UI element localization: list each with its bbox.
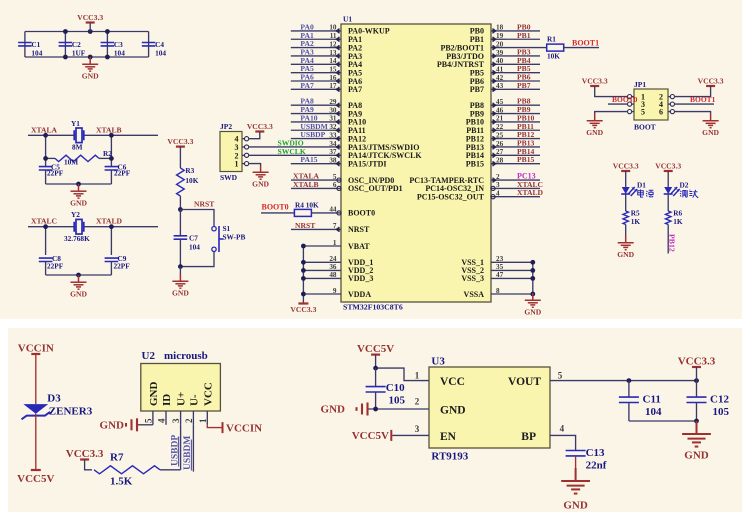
pin number 2 U2 — [192, 411, 194, 425]
svg-text:1K: 1K — [631, 217, 641, 226]
led D2 — [664, 187, 680, 196]
wire pin 13 PA3 — [291, 55, 341, 57]
svg-text:5: 5 — [558, 370, 563, 380]
wire pin 11 PA1 — [291, 38, 341, 40]
capacitor C13 — [566, 451, 586, 456]
svg-text:VCC: VCC — [440, 376, 465, 388]
wire VCC3.3 to JP1 pin2 — [674, 86, 710, 97]
wire Y1 right branch — [110, 135, 112, 164]
svg-text:3: 3 — [415, 424, 420, 434]
wire VCC3.3 to R7 — [85, 460, 92, 470]
svg-text:JP2: JP2 — [220, 122, 232, 131]
wire VOUT net — [550, 380, 697, 382]
capacitor C9 — [105, 258, 119, 261]
svg-text:VCC3.3: VCC3.3 — [290, 305, 316, 314]
svg-text:29: 29 — [329, 98, 337, 106]
wire Y2 right branch — [110, 227, 112, 255]
wire pin 6 OSC_OUT — [291, 187, 341, 189]
crystal Y1 — [74, 128, 83, 143]
wire VCC3.3 to JP1 pin1 — [595, 86, 628, 97]
svg-text:5: 5 — [143, 418, 153, 423]
ground D1 — [618, 236, 634, 250]
svg-text:BOOT0: BOOT0 — [348, 209, 375, 218]
svg-text:XTALC: XTALC — [31, 217, 57, 226]
svg-text:104: 104 — [189, 243, 200, 252]
svg-text:JP1: JP1 — [634, 80, 646, 89]
svg-text:VCCIN: VCCIN — [226, 422, 262, 434]
resistor R2 — [46, 157, 55, 159]
wire pin 28 PB15 — [491, 163, 540, 165]
wire D3 to VCC5V — [35, 414, 37, 470]
regulator U3 body — [429, 367, 550, 448]
wire D2 to R6 — [667, 194, 669, 211]
svg-text:41: 41 — [496, 65, 504, 73]
svg-text:18: 18 — [496, 24, 504, 32]
wire pin 17 PA7 — [291, 88, 341, 90]
svg-text:22PF: 22PF — [47, 169, 64, 178]
resistor R3 — [177, 168, 185, 196]
wire R5 to ground — [625, 225, 627, 236]
svg-text:VCC5V: VCC5V — [357, 343, 394, 355]
wire pin 26 PB13 — [491, 146, 540, 148]
svg-text:GND: GND — [563, 500, 588, 512]
wire VCC3.3 to R3 — [179, 147, 181, 168]
svg-text:BP: BP — [521, 431, 536, 443]
svg-text:C13: C13 — [586, 447, 605, 459]
svg-text:27: 27 — [496, 148, 504, 156]
mcu U1 left pin names — [348, 27, 422, 299]
svg-text:26: 26 — [496, 140, 504, 148]
svg-text:45: 45 — [496, 98, 504, 106]
pin number 1 U2 — [206, 411, 208, 425]
svg-text:25: 25 — [496, 131, 504, 139]
svg-text:17: 17 — [329, 82, 337, 90]
svg-text:SWD: SWD — [220, 173, 238, 182]
svg-text:19: 19 — [496, 32, 504, 40]
wire pin 25 PB12 — [491, 138, 540, 140]
wire NRST to S1 — [180, 210, 214, 227]
svg-text:104: 104 — [155, 49, 166, 58]
wire right ground rail — [532, 262, 534, 293]
junction dots decoupling bank — [63, 29, 68, 34]
svg-text:XTALB: XTALB — [96, 125, 122, 134]
svg-text:13: 13 — [329, 49, 337, 57]
svg-text:Y2: Y2 — [71, 210, 80, 219]
ground U2 — [126, 418, 137, 431]
ground Y1 — [71, 184, 87, 198]
wire pin 43 PB7 — [505, 88, 540, 90]
svg-text:VCCIN: VCCIN — [18, 343, 54, 355]
svg-text:1UF: 1UF — [72, 49, 86, 58]
capacitor C8 — [39, 258, 53, 261]
svg-text:105: 105 — [713, 406, 730, 418]
svg-text:D2: D2 — [680, 181, 689, 190]
wire pin 46 PB9 — [491, 113, 540, 115]
wire pin 42 PB6 — [505, 80, 540, 82]
svg-text:U1: U1 — [343, 15, 352, 24]
svg-text:4: 4 — [496, 190, 500, 198]
wire JP1 pin6 to ground — [674, 112, 710, 114]
svg-text:VCC5V: VCC5V — [17, 473, 54, 485]
wire VCC3.3 to D2 — [667, 171, 669, 187]
wire USBDP net — [180, 425, 182, 470]
wire R6 to PB12 — [667, 225, 669, 254]
capacitor C7 — [179, 210, 181, 236]
svg-text:PB1: PB1 — [517, 31, 531, 40]
wire pin 12 PA2 — [291, 47, 341, 49]
svg-text:PC15-OSC32_OUT: PC15-OSC32_OUT — [417, 193, 485, 202]
svg-text:1.5K: 1.5K — [110, 476, 133, 488]
svg-text:C7: C7 — [189, 234, 198, 243]
svg-text:D1: D1 — [637, 181, 646, 190]
wire U2 pin5 to ground — [138, 424, 153, 426]
svg-text:GND: GND — [70, 199, 87, 208]
svg-text:R3: R3 — [185, 166, 194, 175]
svg-text:10K: 10K — [185, 176, 198, 185]
svg-text:1: 1 — [198, 418, 208, 423]
svg-text:NRST: NRST — [295, 221, 315, 230]
svg-text:8M: 8M — [72, 142, 83, 151]
wire Y2 left branch — [45, 227, 47, 255]
connector U2 microusb — [141, 364, 221, 412]
svg-text:15: 15 — [329, 65, 337, 73]
wire VCC3.3 to D1 — [625, 171, 627, 187]
wire pin 16 PA6 — [291, 80, 341, 82]
svg-text:GND: GND — [100, 420, 125, 432]
svg-text:104: 104 — [31, 49, 42, 58]
wire pin 31 PA10 — [291, 121, 341, 123]
svg-text:C11: C11 — [643, 394, 661, 406]
svg-text:ID: ID — [161, 394, 173, 406]
wire R7 to USBDP — [160, 469, 181, 471]
resistor R7 — [94, 466, 160, 474]
svg-text:PB15: PB15 — [517, 155, 535, 164]
svg-text:33: 33 — [329, 131, 337, 139]
svg-text:BOOT1: BOOT1 — [690, 95, 716, 104]
svg-text:4: 4 — [560, 424, 565, 434]
wire VCCIN to D3 — [35, 354, 37, 404]
mcu U1 right pin names — [409, 27, 484, 299]
svg-text:VCC3.3: VCC3.3 — [698, 77, 724, 86]
wire VBAT rail — [303, 245, 341, 247]
svg-text:microusb: microusb — [164, 350, 208, 362]
wire pin 22 PB11 — [491, 129, 540, 131]
svg-text:PB15: PB15 — [466, 159, 484, 168]
svg-text:44: 44 — [329, 206, 337, 214]
svg-text:VCC3.3: VCC3.3 — [678, 356, 716, 368]
connector JP1 — [634, 89, 668, 120]
wire JP1 pin5 to ground — [595, 112, 628, 114]
svg-text:105: 105 — [389, 394, 406, 406]
svg-text:VCC3.3: VCC3.3 — [613, 162, 639, 171]
svg-text:16: 16 — [329, 74, 337, 82]
svg-text:U+: U+ — [176, 392, 188, 406]
svg-text:11: 11 — [330, 32, 337, 40]
power VCC5V bottom — [31, 469, 41, 471]
svg-text:PA7: PA7 — [348, 85, 362, 94]
svg-text:VSSA: VSSA — [464, 290, 485, 299]
wire JP2 pin4 to VCC3.3 — [248, 132, 259, 139]
ground decoupling bank — [82, 57, 98, 71]
svg-text:XTALB: XTALB — [293, 180, 319, 189]
svg-text:GND: GND — [440, 405, 466, 417]
svg-text:OSC_OUT/PD1: OSC_OUT/PD1 — [348, 184, 403, 193]
capacitor C1 — [18, 43, 32, 46]
svg-text:12: 12 — [329, 40, 337, 48]
svg-text:GND: GND — [524, 308, 541, 317]
svg-text:1: 1 — [235, 160, 239, 169]
svg-text:C12: C12 — [710, 394, 729, 406]
wire VSSA — [491, 293, 533, 295]
wire C10 ground to pin2 GND — [369, 408, 430, 410]
pin number 3 U2 — [180, 411, 182, 425]
svg-text:C10: C10 — [386, 382, 405, 394]
svg-text:14: 14 — [329, 57, 337, 65]
wire pin 32 USBDM — [291, 129, 341, 131]
resistor R4 — [261, 212, 294, 214]
svg-text:GND: GND — [702, 128, 719, 137]
resistor R5 — [623, 211, 628, 225]
svg-text:PA15/JTDI: PA15/JTDI — [348, 159, 387, 168]
capacitor C3 — [101, 43, 115, 46]
wire U2 pin1 to VCCIN — [207, 425, 221, 428]
wire R3 to node — [179, 196, 181, 210]
svg-text:5: 5 — [333, 173, 337, 181]
svg-text:XTALA: XTALA — [31, 125, 58, 134]
wire pin 4 PC15 — [491, 196, 540, 198]
led D1 — [621, 187, 637, 196]
svg-text:37: 37 — [329, 148, 337, 156]
svg-text:22PF: 22PF — [47, 262, 64, 271]
wire decoupling bank rails — [25, 31, 149, 33]
svg-text:VDDA: VDDA — [348, 290, 371, 299]
wire pin 33 USBDP — [291, 138, 341, 140]
svg-text:GND: GND — [252, 180, 269, 189]
wire BOOT1 JP1 pin4 — [674, 103, 714, 105]
wire pin 45 PB8 — [491, 104, 540, 106]
svg-text:VCC3.3: VCC3.3 — [247, 122, 273, 131]
wire VDD rail — [303, 261, 341, 263]
wire pin 2 PC13 — [491, 179, 540, 181]
svg-text:10: 10 — [329, 24, 337, 32]
capacitor C4 — [142, 43, 156, 46]
wire C11 C12 bottom — [629, 420, 697, 422]
wire pin 38 PA15 — [291, 163, 341, 165]
wire pin 30 PA9 — [291, 113, 341, 115]
wire pin 19 PB1 — [505, 38, 540, 40]
svg-text:VCC3.3: VCC3.3 — [655, 162, 681, 171]
wire XTALC-XTALD — [28, 226, 74, 228]
svg-text:GND: GND — [684, 450, 709, 462]
svg-text:STM32F103C8T6: STM32F103C8T6 — [343, 303, 403, 312]
svg-text:46: 46 — [496, 106, 504, 114]
svg-text:NRST: NRST — [348, 225, 370, 234]
svg-text:GND: GND — [82, 72, 99, 81]
wire pin 34 SWDIO — [248, 146, 341, 148]
node C7 bottom — [178, 264, 183, 269]
wire BOOT0 JP1 pin3 — [608, 103, 628, 105]
svg-text:GND: GND — [586, 128, 603, 137]
ground output caps — [682, 421, 711, 447]
svg-text:VCC3.3: VCC3.3 — [66, 448, 104, 460]
pin number 5 U2 — [152, 411, 154, 425]
svg-text:6: 6 — [659, 108, 663, 117]
svg-text:104: 104 — [645, 406, 662, 418]
svg-text:7: 7 — [333, 222, 337, 230]
svg-text:3: 3 — [171, 418, 181, 423]
wire Y2 bottom rail — [46, 274, 112, 276]
ground C13 — [561, 468, 590, 494]
svg-text:VCC3.3: VCC3.3 — [167, 137, 193, 146]
svg-text:PB7: PB7 — [470, 85, 484, 94]
svg-text:38: 38 — [329, 156, 337, 164]
capacitor C6 — [110, 164, 112, 166]
svg-text:20: 20 — [496, 40, 504, 48]
wire pin 10 PA0 — [291, 30, 341, 32]
resistor R6 — [666, 211, 671, 225]
svg-text:VCC3.3: VCC3.3 — [77, 13, 103, 22]
wire EN — [392, 434, 429, 436]
wire pin 18 PB0 — [505, 30, 540, 32]
wire pin 7 NRST — [291, 228, 341, 230]
ground mcu — [525, 293, 541, 307]
svg-text:VDD_3: VDD_3 — [348, 274, 373, 283]
svg-text:21: 21 — [496, 115, 504, 123]
wire pin 15 PA5 — [291, 72, 341, 74]
svg-text:8: 8 — [496, 287, 500, 295]
ground reset circuit — [179, 267, 181, 274]
capacitor C2 — [59, 43, 73, 46]
svg-text:28: 28 — [496, 156, 504, 164]
wire pin 39 PB3 — [505, 55, 540, 57]
wire pin 29 PA8 — [291, 104, 341, 106]
svg-text:PA7: PA7 — [300, 81, 314, 90]
svg-text:2: 2 — [496, 173, 500, 181]
wire VCC5V node to pin1 — [375, 355, 377, 369]
svg-text:GND: GND — [321, 404, 346, 416]
svg-text:U3: U3 — [431, 356, 445, 368]
wire XTALA-XTALB — [28, 134, 74, 136]
svg-text:BOOT: BOOT — [634, 123, 656, 132]
ground JP2 — [253, 165, 269, 179]
svg-text:35: 35 — [496, 263, 504, 271]
switch S1 SW-PB — [212, 227, 216, 231]
svg-text:39: 39 — [496, 49, 504, 57]
wire pin 14 PA4 — [291, 63, 341, 65]
svg-text:VSS_3: VSS_3 — [461, 274, 484, 283]
svg-text:GND: GND — [617, 250, 634, 259]
svg-text:PA15: PA15 — [300, 155, 317, 164]
ground U3 input — [357, 403, 368, 416]
wire pin 20 PB2 to R1 — [491, 47, 547, 49]
svg-text:22: 22 — [496, 123, 504, 131]
svg-text:R7: R7 — [110, 452, 124, 464]
svg-text:2: 2 — [415, 396, 420, 406]
svg-text:VCC: VCC — [202, 382, 214, 406]
svg-text:23: 23 — [496, 255, 504, 263]
svg-text:22PF: 22PF — [114, 169, 131, 178]
svg-text:47: 47 — [496, 271, 504, 279]
svg-text:RT9193: RT9193 — [431, 451, 468, 463]
wire JP2 pin1 to ground — [248, 164, 260, 165]
pin number 4 U2 — [165, 411, 167, 425]
svg-text:R1: R1 — [547, 35, 556, 44]
svg-text:ZENER3: ZENER3 — [49, 406, 93, 418]
svg-text:10M: 10M — [64, 158, 78, 167]
wire pin 41 PB5 — [505, 72, 540, 74]
svg-text:SW-PB: SW-PB — [223, 233, 246, 242]
svg-text:31: 31 — [329, 115, 337, 123]
svg-text:5: 5 — [641, 108, 645, 117]
wire pin 40 PB4 — [505, 63, 540, 65]
svg-text:36: 36 — [329, 263, 337, 271]
svg-text:2: 2 — [184, 418, 194, 423]
svg-text:BOOT0: BOOT0 — [262, 203, 289, 212]
svg-text:32: 32 — [329, 123, 337, 131]
svg-text:22nf: 22nf — [586, 460, 607, 472]
wire left power rail — [302, 246, 304, 304]
capacitor C5 — [45, 164, 47, 166]
wire VSS rail — [491, 261, 533, 263]
ground JP1 right — [703, 114, 719, 128]
wire Y1 left branch — [45, 135, 47, 164]
svg-text:U-: U- — [188, 394, 200, 406]
svg-text:32.768K: 32.768K — [64, 234, 90, 243]
svg-text:104: 104 — [114, 49, 125, 58]
wire VDDA — [303, 293, 341, 295]
wire USBDM net — [192, 425, 194, 472]
svg-text:VCC3.3: VCC3.3 — [582, 77, 608, 86]
svg-text:USBDP: USBDP — [300, 130, 325, 139]
svg-text:R4 10K: R4 10K — [295, 201, 319, 210]
wire Y1 bottom rail — [46, 183, 112, 185]
ground Y2 — [71, 275, 87, 289]
svg-text:PB7: PB7 — [517, 81, 531, 90]
svg-text:24: 24 — [329, 255, 337, 263]
svg-text:U2: U2 — [142, 350, 156, 362]
svg-text:4: 4 — [157, 418, 167, 423]
svg-text:BOOT0: BOOT0 — [612, 95, 638, 104]
svg-text:Y1: Y1 — [71, 119, 80, 128]
svg-text:VOUT: VOUT — [508, 376, 541, 388]
capacitor C10 — [375, 368, 377, 386]
svg-text:42: 42 — [496, 74, 504, 82]
svg-text:D3: D3 — [47, 393, 61, 405]
svg-text:NRST: NRST — [194, 200, 214, 209]
connector JP2 — [220, 132, 242, 172]
wire S1 to ground rail — [180, 252, 214, 267]
svg-text:GND: GND — [172, 289, 189, 298]
svg-text:BOOT1: BOOT1 — [572, 39, 599, 48]
svg-text:3: 3 — [496, 181, 500, 189]
crystal Y2 — [74, 219, 83, 234]
wire pin 27 PB14 — [491, 154, 540, 156]
power VCC3.3 mcu — [298, 302, 308, 304]
wire D1 to R5 — [625, 194, 627, 211]
wire pin 5 OSC_IN — [291, 179, 341, 181]
svg-text:34: 34 — [329, 140, 337, 148]
capacitor C12 — [696, 381, 698, 397]
svg-text:10K: 10K — [547, 52, 560, 61]
node VCCIN right — [222, 422, 224, 433]
diode D3 ZENER3 — [23, 404, 48, 414]
resistor R1 — [547, 44, 564, 51]
wire pin 3 PC14 — [491, 187, 540, 189]
svg-text:1K: 1K — [673, 217, 683, 226]
svg-text:GND: GND — [148, 382, 160, 407]
svg-text:GND: GND — [70, 290, 87, 299]
svg-text:9: 9 — [333, 287, 337, 295]
